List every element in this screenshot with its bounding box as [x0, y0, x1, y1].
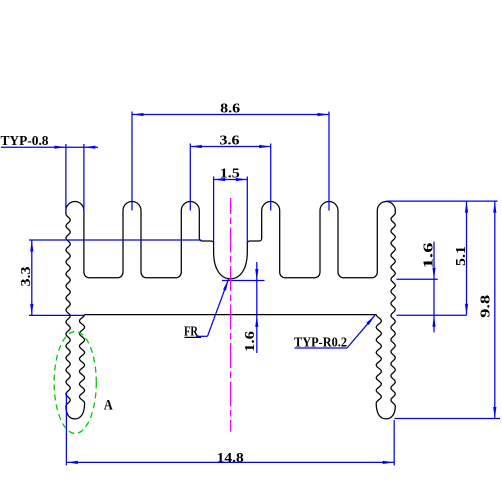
svg-text:5.1: 5.1 — [454, 246, 469, 266]
svg-text:3.6: 3.6 — [220, 134, 240, 149]
svg-text:A: A — [104, 397, 113, 413]
svg-text:1.6: 1.6 — [243, 331, 258, 352]
svg-text:TYP-R0.2: TYP-R0.2 — [294, 335, 347, 350]
svg-text:TYP-0.8: TYP-0.8 — [1, 134, 49, 149]
svg-text:3.3: 3.3 — [19, 267, 34, 287]
svg-text:8.6: 8.6 — [220, 102, 240, 117]
svg-text:FR: FR — [184, 325, 199, 340]
svg-text:1.5: 1.5 — [220, 167, 240, 182]
svg-text:1.6: 1.6 — [421, 243, 436, 269]
svg-text:14.8: 14.8 — [217, 451, 244, 466]
svg-text:9.8: 9.8 — [478, 295, 493, 318]
